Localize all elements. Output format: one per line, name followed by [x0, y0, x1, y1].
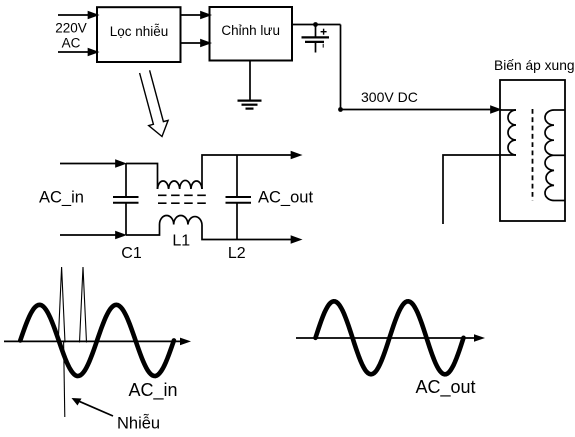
block Loc nhieu box	[97, 7, 181, 62]
block Chinh luu box	[210, 7, 293, 61]
svg-text:Chỉnh lưu: Chỉnh lưu	[221, 23, 280, 38]
svg-text:Biến áp xung: Biến áp xung	[494, 58, 575, 73]
big hollow arrow	[140, 70, 169, 136]
wire arrow box1 to box2 bottom	[181, 42, 204, 44]
svg-text:AC: AC	[62, 36, 81, 51]
wire down to 300V DC line	[340, 25, 342, 110]
wire input arrow bottom	[58, 51, 90, 53]
transformer core (dashed)	[532, 109, 534, 201]
filter output arrow top	[237, 154, 293, 156]
wire top left	[126, 164, 158, 190]
transformer primary winding	[500, 110, 516, 155]
svg-text:L1: L1	[172, 233, 190, 250]
capacitor C1	[113, 164, 139, 236]
capacitor C (filter cap)	[302, 25, 330, 53]
node junction dot 2	[338, 107, 343, 112]
noise spike 1	[58, 267, 65, 343]
core L1 dashed lines	[158, 194, 206, 196]
svg-text:Nhiễu: Nhiễu	[117, 414, 160, 433]
filter output arrow bottom	[237, 239, 293, 241]
wire input arrow top	[58, 14, 90, 16]
svg-text:AC_in: AC_in	[39, 189, 84, 207]
svg-text:300V DC: 300V DC	[361, 89, 418, 105]
svg-text:220V: 220V	[55, 21, 87, 36]
inductor L1 bottom winding	[160, 216, 203, 225]
noise spike 2	[80, 267, 87, 343]
wire bottom left	[126, 225, 160, 236]
svg-text:C1: C1	[121, 245, 142, 262]
wire transformer primary return	[443, 155, 516, 224]
capacitor L2	[226, 155, 252, 240]
transformer Bien ap xung box	[500, 80, 565, 221]
filter: input arrow bottom	[60, 234, 117, 236]
wire 300V DC to transformer	[341, 109, 493, 111]
arrow to noise	[78, 401, 113, 416]
ground	[238, 61, 262, 109]
svg-text:AC_out: AC_out	[258, 189, 313, 207]
wire box2 to cap node	[292, 24, 341, 26]
waveform right sine AC_out	[316, 301, 464, 374]
wire top right riser	[202, 155, 237, 189]
waveform left sine AC_in	[20, 305, 174, 376]
wire arrow box1 to box2 top	[181, 14, 204, 16]
svg-text:AC_in: AC_in	[129, 380, 178, 401]
node junction dot	[313, 22, 318, 27]
filter: input arrow top	[60, 163, 117, 165]
inductor L1 top winding	[158, 180, 203, 189]
waveform right axis	[296, 337, 476, 339]
wire bottom right	[202, 225, 237, 240]
svg-text:L2: L2	[228, 245, 246, 262]
waveform left axis	[4, 340, 182, 342]
noise spike downward	[64, 342, 65, 417]
transformer secondary winding	[545, 110, 565, 201]
svg-text:Lọc nhiễu: Lọc nhiễu	[110, 24, 169, 39]
svg-text:AC_out: AC_out	[416, 377, 476, 398]
